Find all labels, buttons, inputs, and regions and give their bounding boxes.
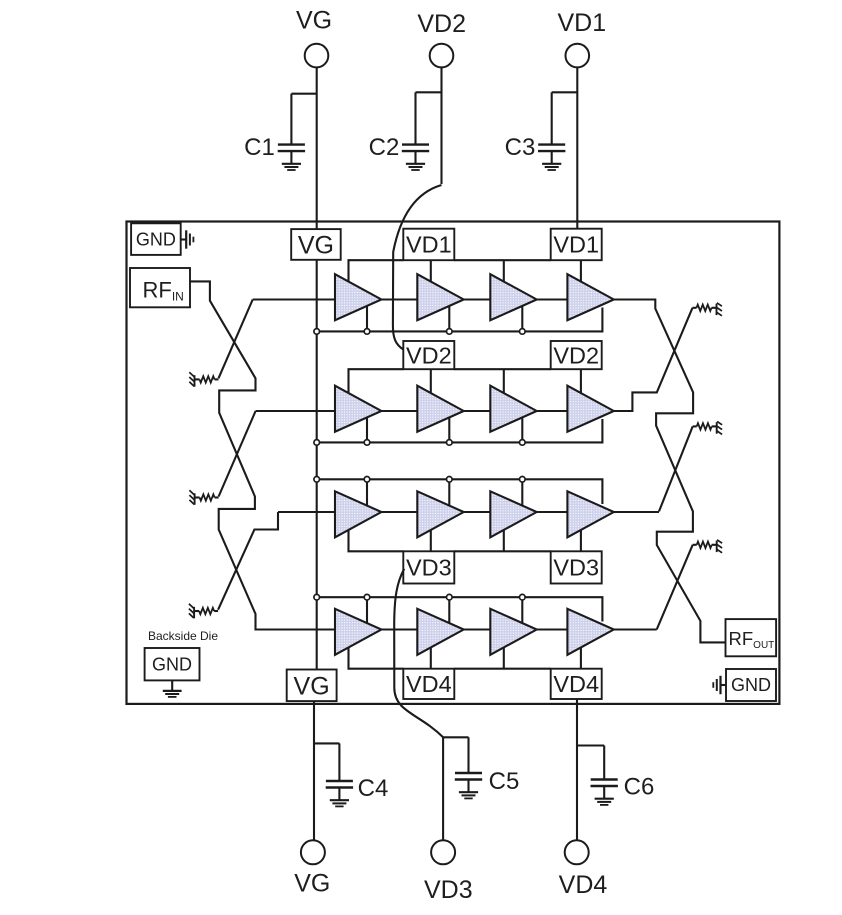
- wire row1 input termination branch: [219, 300, 253, 379]
- amplifier A32 (row 3, stage 2): [417, 491, 463, 537]
- svg-text:VD3: VD3: [424, 876, 473, 904]
- wire VG trunk (top pad to VG box): [316, 67, 318, 229]
- wire drain stub amp3 row2: [503, 369, 505, 401]
- wire gate stub amp3 row4: [521, 597, 523, 623]
- wire drain stub amp4 row4: [580, 640, 582, 669]
- amplifier A42 (row 4, stage 2): [417, 609, 463, 655]
- resistor R-term input row2: [215, 496, 219, 498]
- svg-text:VD1: VD1: [553, 232, 599, 258]
- amplifier A13 (row 1, stage 3): [490, 274, 536, 320]
- terminal VD4 (bottom pad): [565, 840, 589, 864]
- amplifier A41 (row 4, stage 1): [335, 609, 381, 655]
- svg-text:VG: VG: [294, 673, 330, 701]
- wire VD2 trunk (top): [440, 67, 442, 184]
- wire row3 input termination branch: [218, 512, 278, 610]
- wire VD3 trunk (bottom): [442, 737, 444, 840]
- wire row2 input termination branch: [219, 411, 256, 497]
- wire drain stub amp4 row2: [580, 369, 582, 401]
- wire VG gate bus row4: [317, 597, 603, 621]
- terminal VD1 (top pad): [566, 44, 590, 68]
- wire gate stub amp1 row3: [366, 479, 368, 506]
- svg-text:C5: C5: [489, 768, 520, 795]
- junction dots gate bus row2: [314, 440, 525, 446]
- amplifier A33 (row 3, stage 3): [490, 491, 536, 537]
- wire VG trunk (bottom): [313, 701, 315, 840]
- svg-text:VD2: VD2: [406, 342, 452, 368]
- wire drain stub amp3 row1: [503, 260, 505, 289]
- wire VD4 drain bus: [349, 640, 404, 669]
- wire VG gate bus row3: [317, 479, 603, 504]
- wire RF signal line row2: [256, 410, 632, 412]
- wire RF signal line row1: [253, 298, 656, 300]
- resistor R-term output row3: [693, 544, 697, 546]
- wire VD1 trunk (top pad to VD1 box): [576, 67, 578, 228]
- amplifier A31 (row 3, stage 1): [335, 491, 381, 537]
- amplifier A12 (row 1, stage 2): [417, 274, 463, 320]
- wire VG rail (inside die): [316, 260, 318, 670]
- wire VG gate bus row2: [317, 419, 603, 442]
- net label box VD4 (right): [551, 669, 602, 699]
- capacitor C2: [416, 91, 442, 93]
- capacitor C6: [577, 744, 604, 746]
- amplifier A14 (row 1, stage 4): [567, 274, 613, 320]
- wire drain stub amp2 row3: [430, 522, 432, 551]
- wire VD3 curved feed from VD3 box: [394, 569, 443, 738]
- wire gate stub amp2 row3: [448, 479, 450, 506]
- ground symbol (bottom-right, sideways): [721, 684, 727, 686]
- terminal VG (bottom pad): [301, 840, 325, 864]
- svg-text:VD4: VD4: [553, 671, 599, 697]
- svg-text:C3: C3: [505, 134, 536, 161]
- capacitor C1: [291, 93, 316, 95]
- svg-text:VD2: VD2: [553, 342, 599, 368]
- wire gate stub amp2 row1: [448, 306, 450, 332]
- wire gate stub amp3 row1: [521, 306, 523, 332]
- wire drain stub amp3 row4: [503, 640, 505, 669]
- wire gate stub amp2 row2: [448, 417, 450, 442]
- pad box VG (top): [291, 229, 341, 260]
- amplifier A21 (row 2, stage 1): [335, 386, 381, 432]
- wire RF output combine meander: [614, 300, 726, 643]
- net label box VD3 (right): [551, 551, 602, 583]
- wire RF input feed meander: [190, 281, 335, 629]
- svg-text:VD4: VD4: [406, 671, 452, 697]
- wire VD2 drain bus: [349, 369, 404, 401]
- ground symbol (top-left, sideways): [181, 238, 187, 240]
- svg-text:GND: GND: [136, 230, 176, 250]
- net label box VD1 (right): [551, 229, 602, 261]
- svg-text:C6: C6: [624, 774, 655, 801]
- pad box GND (bottom-right): [726, 669, 776, 701]
- wire VD2 curved feed to VD2 box: [393, 185, 442, 350]
- capacitor C3: [552, 91, 578, 93]
- svg-text:GND: GND: [152, 655, 192, 675]
- wire gate stub amp3 row3: [521, 479, 523, 506]
- wire VD1 drain bus: [349, 260, 404, 289]
- wire drain stub amp2 row1: [430, 260, 432, 289]
- wire drain stub amp4 row3: [580, 522, 582, 551]
- wire gate stub amp1 row1: [366, 306, 368, 332]
- amplifier A11 (row 1, stage 1): [335, 274, 381, 320]
- svg-text:VD1: VD1: [557, 9, 606, 37]
- wire gate stub amp3 row2: [521, 417, 523, 442]
- wire VG gate bus row1: [317, 308, 603, 332]
- wire RF signal line row3: [278, 511, 659, 513]
- wire gate stub amp1 row4: [366, 597, 368, 623]
- svg-text:C4: C4: [358, 775, 389, 802]
- svg-text:VD3: VD3: [406, 555, 452, 581]
- svg-text:C2: C2: [369, 134, 400, 161]
- wire drain stub amp3 row3: [503, 522, 505, 551]
- junction dots gate bus row3: [314, 477, 525, 483]
- wire drain stub amp2 row2: [430, 369, 432, 401]
- wire drain stub amp2 row4: [430, 640, 432, 669]
- pad box RF_OUT: [726, 619, 777, 656]
- capacitor C4: [314, 742, 339, 744]
- resistor R-term input row3: [214, 610, 218, 612]
- terminal VD2 (top pad): [430, 44, 454, 68]
- junction dots gate bus row4: [314, 594, 525, 600]
- wire gate stub amp1 row2: [366, 417, 368, 442]
- amplifier A23 (row 2, stage 3): [490, 386, 536, 432]
- svg-text:Backside Die: Backside Die: [148, 629, 218, 643]
- svg-text:VG: VG: [298, 232, 334, 260]
- wire row4 output crossover branch: [657, 545, 693, 630]
- resistor R-term output row1: [693, 307, 697, 309]
- net label box VD2 (right): [551, 341, 602, 369]
- amplifier A44 (row 4, stage 4): [567, 609, 613, 655]
- wire RF signal line row4: [256, 628, 657, 630]
- net label box VD2 (left): [403, 341, 454, 369]
- ground symbol (bottom-left): [171, 680, 173, 691]
- svg-text:VD3: VD3: [553, 555, 599, 581]
- amplifier A43 (row 4, stage 3): [490, 609, 536, 655]
- svg-text:VD4: VD4: [559, 871, 608, 899]
- amplifier A24 (row 2, stage 4): [567, 386, 613, 432]
- wire row2 output crossover branch: [614, 308, 693, 411]
- svg-text:C1: C1: [244, 134, 275, 161]
- wire gate stub amp2 row4: [448, 597, 450, 623]
- svg-text:VG: VG: [296, 7, 332, 35]
- net label box VD4 (left): [403, 669, 454, 699]
- amplifier A22 (row 2, stage 2): [417, 386, 463, 432]
- pad box GND (bottom-left): [145, 648, 200, 680]
- wire drain stub amp4 row1: [580, 260, 582, 289]
- capacitor C5: [443, 736, 468, 738]
- resistor R-term output row2: [693, 425, 697, 427]
- resistor R-term input row1: [215, 378, 219, 380]
- die outline (Backside Die boundary): [127, 222, 780, 704]
- wire VD3 drain bus: [349, 522, 404, 551]
- junction dots gate bus row1: [314, 329, 525, 335]
- pad box GND (top-left): [131, 223, 181, 255]
- wire VD4 trunk (bottom): [576, 699, 578, 840]
- svg-text:VD2: VD2: [417, 10, 466, 38]
- terminal VD3 (bottom pad): [431, 840, 455, 864]
- net label box VD1 (left): [403, 229, 454, 261]
- svg-text:VD1: VD1: [406, 232, 452, 258]
- amplifier A34 (row 3, stage 4): [567, 491, 613, 537]
- svg-text:VG: VG: [294, 870, 330, 898]
- svg-text:GND: GND: [731, 675, 771, 695]
- net label box VD3 (left): [403, 551, 454, 583]
- wire row3 output crossover branch: [659, 426, 693, 511]
- pad box RF_IN: [130, 268, 190, 307]
- pad box VG (bottom): [287, 670, 337, 702]
- terminal VG (top pad): [305, 44, 329, 68]
